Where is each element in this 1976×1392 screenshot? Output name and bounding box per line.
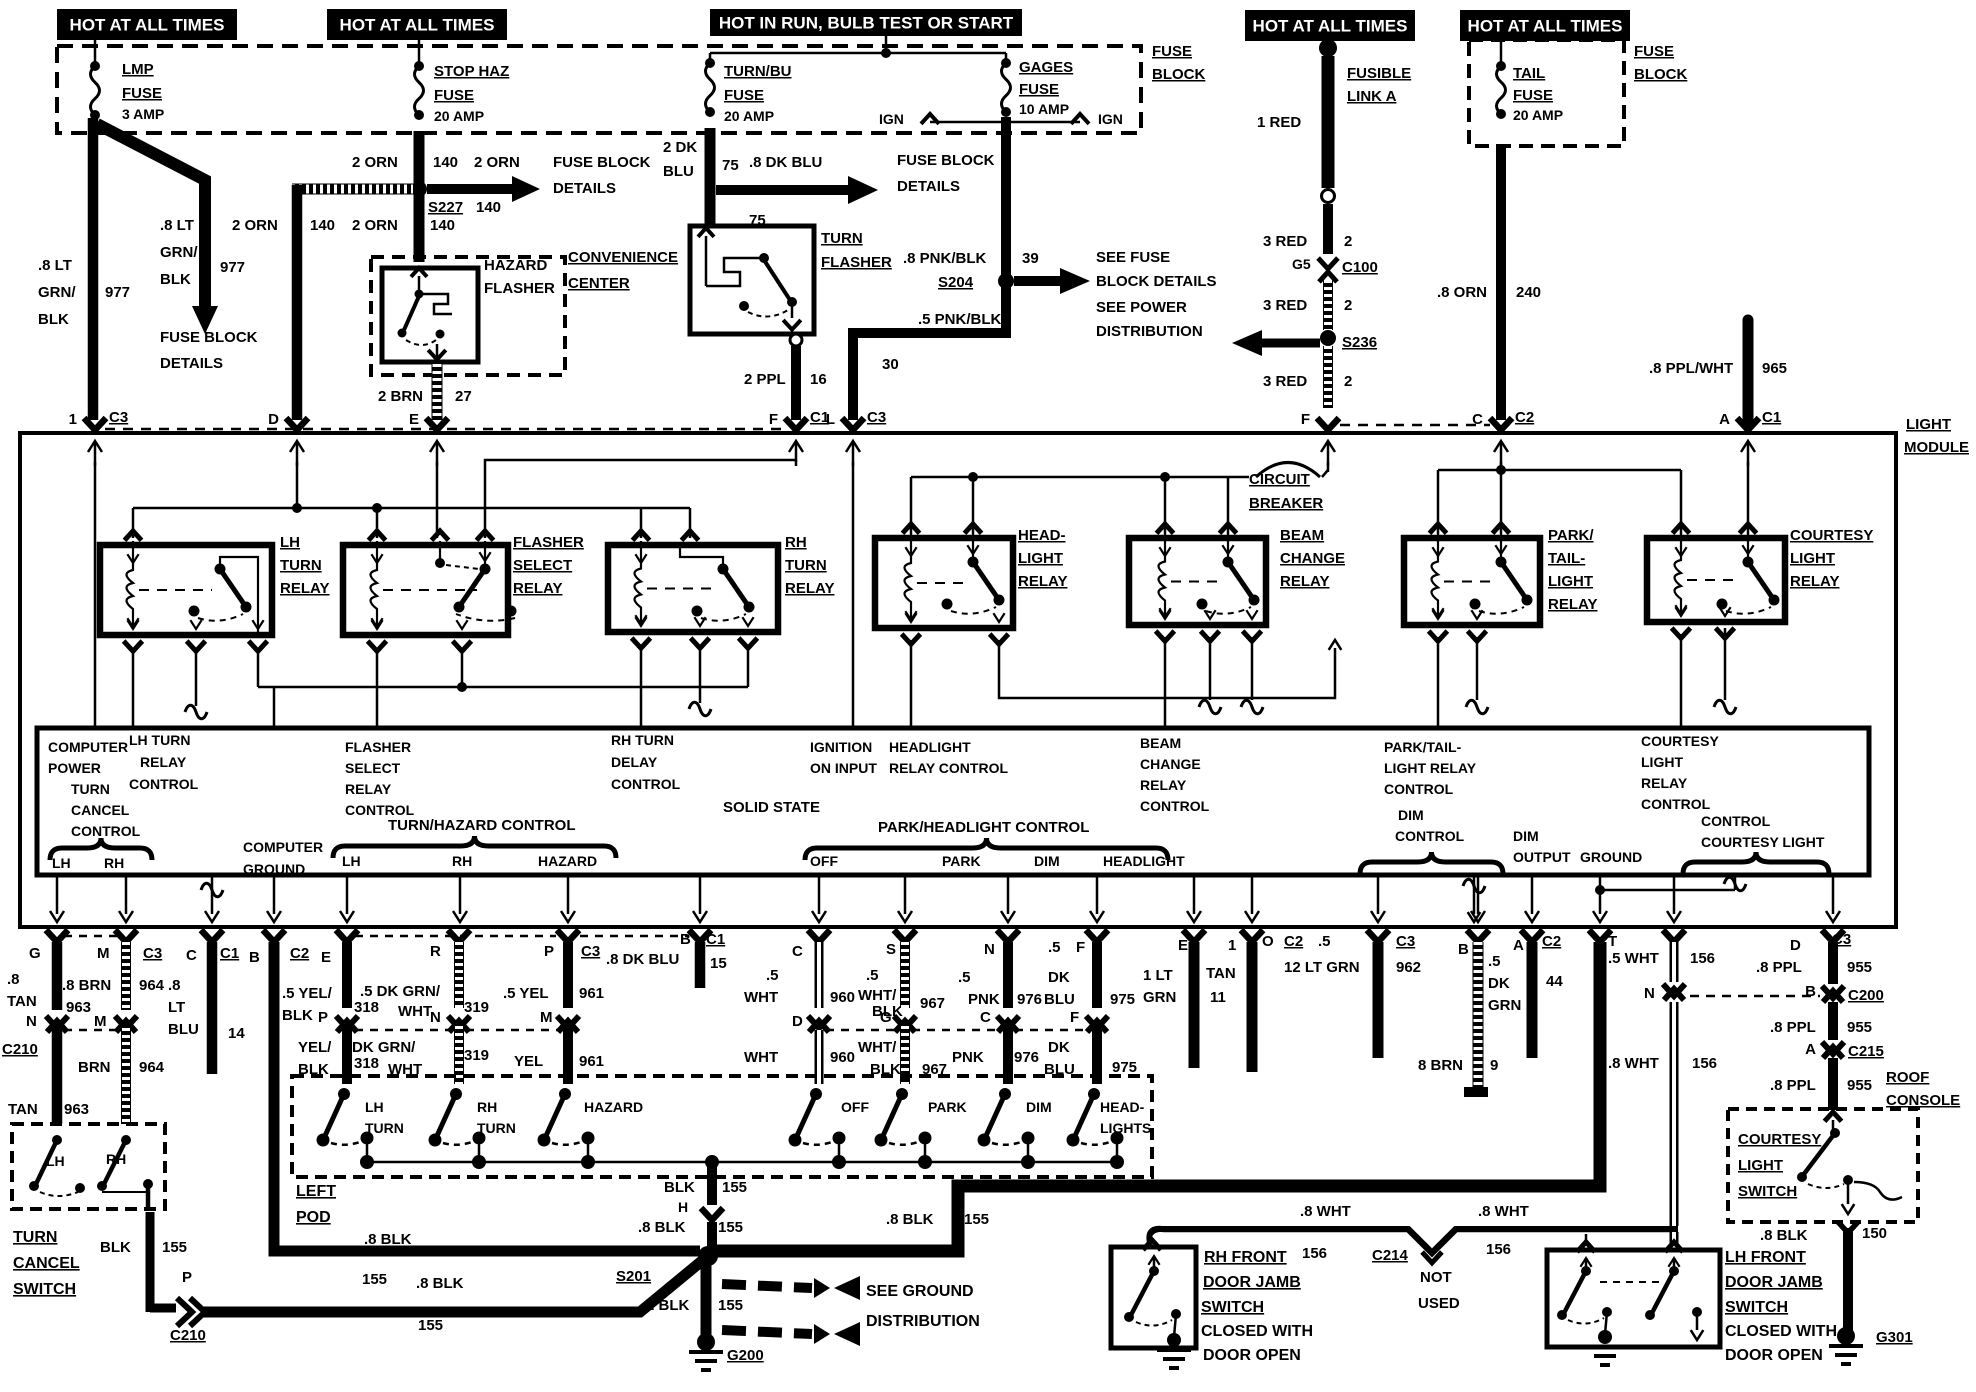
wire .8 WHT 156 (hollow vert) <box>1670 1002 1679 1226</box>
wire 2 BRN 27 (hatched) <box>432 364 443 422</box>
label FLASHER SELECT RELAY CONTROL <box>345 739 415 818</box>
svg-text:962: 962 <box>1396 959 1421 976</box>
svg-text:30: 30 <box>882 356 899 373</box>
svg-text:.5 YEL: .5 YEL <box>503 985 549 1002</box>
svg-text:.5: .5 <box>866 967 879 984</box>
left pod box <box>292 1076 1152 1177</box>
row connector x=568 <box>557 930 579 942</box>
svg-text:E: E <box>409 411 419 428</box>
svg-text:RH: RH <box>785 534 807 551</box>
output wire x=1532 <box>1525 875 1539 922</box>
row connector x=274 <box>263 930 285 942</box>
svg-text:G: G <box>29 945 41 962</box>
label C PNK 976 (row2) <box>952 1009 1039 1066</box>
label COURTESY LIGHT RELAY CONTROL <box>1641 733 1719 812</box>
svg-text:HOT IN RUN, BULB TEST OR START: HOT IN RUN, BULB TEST OR START <box>719 14 1014 33</box>
svg-text:BLK: BLK <box>38 311 69 328</box>
svg-text:DOOR JAMB: DOOR JAMB <box>1203 1274 1301 1291</box>
svg-text:C210: C210 <box>2 1041 38 1058</box>
fuse STOP HAZ 20A <box>414 40 424 120</box>
label 2 DK BLU 75 <box>663 139 739 180</box>
svg-text:967: 967 <box>920 995 945 1012</box>
svg-text:RELAY: RELAY <box>345 781 392 797</box>
LH jamb switch internals right <box>1645 1258 1703 1340</box>
svg-text:LH: LH <box>280 534 300 551</box>
connector N (C200 dashes) <box>1690 995 1820 998</box>
dashed connector line (module top left) <box>105 428 782 431</box>
label LH TURN RELAY CONTROL <box>129 732 199 792</box>
svg-text:.8 PPL: .8 PPL <box>1756 959 1802 976</box>
label P (row2) <box>318 1009 328 1026</box>
wire .8 TAN 963 <box>52 942 63 1124</box>
svg-text:CONTROL: CONTROL <box>1641 796 1711 812</box>
svg-text:LIGHT RELAY: LIGHT RELAY <box>1384 760 1477 776</box>
convenience center (dashed box) <box>371 257 565 375</box>
svg-text:3 RED: 3 RED <box>1263 297 1307 314</box>
svg-text:CONTROL: CONTROL <box>345 802 415 818</box>
svg-text:RELAY: RELAY <box>280 580 329 597</box>
wire .8 BLK to S201 (from B) <box>274 942 700 1251</box>
svg-text:FUSE: FUSE <box>1019 81 1059 98</box>
wire IGN taps <box>921 114 1089 124</box>
svg-text:BRN: BRN <box>78 1059 111 1076</box>
svg-text:319: 319 <box>464 1047 489 1064</box>
connector courtesy out <box>1838 1222 1858 1233</box>
output wire x=460 <box>453 875 467 922</box>
output wire x=1194 <box>1187 875 1201 922</box>
label .8 BLK (S201 diag) <box>416 1275 464 1292</box>
wire PT coil to control <box>1437 637 1440 728</box>
svg-text:S204: S204 <box>938 274 974 291</box>
svg-text:RELAY: RELAY <box>1790 573 1839 590</box>
label CONTROL COURTESY LIGHT <box>1701 813 1825 850</box>
connector E at module top x=437 <box>409 411 448 430</box>
label .8 DK BLU (B C1 15) <box>606 931 727 972</box>
svg-text:318: 318 <box>354 999 379 1016</box>
svg-text:FUSE BLOCK: FUSE BLOCK <box>553 154 651 171</box>
svg-text:C200: C200 <box>1848 987 1884 1004</box>
header HOT AT ALL TIMES (left) <box>57 9 237 40</box>
label .5 DK GRN/WHT 319 <box>360 983 489 1020</box>
svg-text:156: 156 <box>1302 1245 1327 1262</box>
svg-text:HOT AT ALL TIMES: HOT AT ALL TIMES <box>1468 17 1623 36</box>
wire WHT 960 (hollow) <box>815 942 824 1084</box>
svg-text:.5: .5 <box>1048 939 1061 956</box>
svg-text:1 RED: 1 RED <box>1257 114 1301 131</box>
svg-text:TURN/HAZARD CONTROL: TURN/HAZARD CONTROL <box>388 817 575 834</box>
turn cancel switch LH <box>29 1135 85 1196</box>
svg-text:.8: .8 <box>7 971 20 988</box>
svg-text:RELAY: RELAY <box>1140 777 1187 793</box>
svg-text:C1: C1 <box>220 945 239 962</box>
svg-text:2 ORN: 2 ORN <box>232 217 278 234</box>
svg-text:RH: RH <box>452 853 472 869</box>
wire .8 LT GRN/BLK 977 (vertical) <box>88 118 99 420</box>
svg-text:F: F <box>1076 939 1085 956</box>
svg-text:20 AMP: 20 AMP <box>724 108 774 124</box>
svg-text:C3: C3 <box>1396 933 1415 950</box>
dashed connector row line b <box>355 935 556 938</box>
svg-text:S201: S201 <box>616 1268 651 1285</box>
svg-text:.8 BLK: .8 BLK <box>364 1231 412 1248</box>
svg-text:GRN/: GRN/ <box>38 284 76 301</box>
entry arrow x=1501 <box>1494 441 1508 466</box>
svg-text:TURN: TURN <box>821 230 863 247</box>
svg-text:P: P <box>544 943 554 960</box>
svg-text:FUSE BLOCK: FUSE BLOCK <box>897 152 995 169</box>
wire .8 DK BLU 15 (stub) <box>695 942 706 988</box>
connector RH jamb <box>1143 1240 1161 1250</box>
label 2 ORN 140 2 ORN (above) <box>352 154 520 171</box>
svg-text:P: P <box>318 1009 328 1026</box>
label RH TURN DELAY CONTROL <box>611 732 681 792</box>
label 977 (left) <box>105 284 130 301</box>
svg-text:HEAD-: HEAD- <box>1100 1099 1145 1115</box>
svg-text:155: 155 <box>718 1219 743 1236</box>
connector C at module top x=1501 <box>1472 409 1534 430</box>
label PARK/HEADLIGHT CONTROL <box>878 819 1089 836</box>
wire .5 WHT 156 (hollow) <box>1670 942 1679 982</box>
wire C2 44 (stub) <box>1527 942 1538 1058</box>
label LH FRONT DOOR JAMB SWITCH <box>1725 1249 1837 1364</box>
svg-text:F: F <box>1070 1009 1079 1026</box>
label LH RH HAZARD <box>342 853 597 869</box>
svg-text:E: E <box>1178 937 1188 954</box>
svg-text:15: 15 <box>710 955 727 972</box>
svg-text:.5 WHT: .5 WHT <box>1608 950 1659 967</box>
label .5 WHT 156 N <box>1608 950 1715 1002</box>
splice S204 <box>998 273 1014 289</box>
relay PARK/TAIL <box>1404 524 1597 641</box>
svg-text:G200: G200 <box>727 1347 764 1364</box>
svg-text:140: 140 <box>433 154 458 171</box>
svg-text:TURN: TURN <box>365 1120 404 1136</box>
dashed row2 line f <box>1015 1029 1090 1032</box>
svg-text:11: 11 <box>1210 989 1226 1006</box>
svg-text:960: 960 <box>830 989 855 1006</box>
wire 2 ORN arrow to fuse block details <box>427 176 540 202</box>
label 977 (branch) <box>220 259 245 276</box>
connector F at module top x=796 <box>769 409 829 430</box>
wire PT contact break <box>1466 637 1488 714</box>
svg-text:COMPUTER: COMPUTER <box>48 739 128 755</box>
wire 1 TAN (stub) <box>1247 942 1258 1072</box>
coil drops (left bus) <box>133 508 690 538</box>
label DIM OUTPUT GROUND <box>1513 828 1642 865</box>
svg-text:.5: .5 <box>1488 953 1501 970</box>
label .8 ORN 240 <box>1437 284 1541 301</box>
label SEE FUSE BLOCK DETAILS <box>1096 249 1217 290</box>
wire arrow to fuse block details (S204) <box>1014 268 1090 294</box>
label SEE GROUND DISTRIBUTION <box>866 1283 980 1330</box>
svg-text:PARK/: PARK/ <box>1548 527 1594 544</box>
wire .8 ORN 240 <box>1496 144 1506 420</box>
svg-text:RELAY: RELAY <box>1018 573 1067 590</box>
label FUSE BLOCK (left) <box>1152 43 1205 83</box>
svg-text:DISTRIBUTION: DISTRIBUTION <box>1096 323 1203 340</box>
relay feed bus (park) <box>1438 465 1681 475</box>
brace DIM CONTROL <box>1360 852 1503 874</box>
hazard flasher internals <box>398 268 453 362</box>
svg-text:976: 976 <box>1014 1049 1039 1066</box>
svg-text:BLK: BLK <box>100 1239 131 1256</box>
svg-text:C3: C3 <box>581 943 600 960</box>
svg-text:OFF: OFF <box>810 853 838 869</box>
wire .8 PPL 955 chain <box>1828 942 1838 1110</box>
label ROOF CONSOLE <box>1886 1069 1960 1109</box>
connector C214 not used <box>1372 1247 1460 1312</box>
wire hot feed bus (run/bulb-test) <box>710 36 1006 63</box>
label C (819) <box>792 943 803 960</box>
label 155 (under C210 wire) <box>418 1317 443 1334</box>
label 2 BRN 27 <box>378 388 472 405</box>
label .5 PNK/BLK 30 <box>882 311 1002 373</box>
svg-text:140: 140 <box>476 199 501 216</box>
dashed connector line (module top right) <box>1340 424 1490 427</box>
wire BC coil to control <box>1164 637 1167 728</box>
row connector x=57 <box>46 930 68 942</box>
svg-text:OUTPUT: OUTPUT <box>1513 849 1571 865</box>
coil drops (park bus) <box>1438 470 1681 534</box>
splice S227 <box>411 181 427 197</box>
wire 2 ORN 140 (S227 drop) <box>414 131 425 262</box>
svg-text:YEL/: YEL/ <box>298 1039 332 1056</box>
label CIRCUIT BREAKER <box>1249 471 1323 512</box>
svg-text:LH: LH <box>46 1153 65 1169</box>
dashed link jamb <box>1600 1281 1664 1283</box>
svg-text:TURN/BU: TURN/BU <box>724 63 792 80</box>
row connector x=905 <box>894 930 916 942</box>
svg-text:A: A <box>1719 411 1730 428</box>
label TURN/BU FUSE 20 AMP <box>724 63 792 124</box>
row connector x=1097 <box>1086 930 1108 942</box>
svg-text:155: 155 <box>362 1271 387 1288</box>
svg-text:C3: C3 <box>143 945 162 962</box>
label .8 PPL/WHT 965 <box>1649 360 1787 377</box>
entry arrow x=1328 <box>1321 441 1335 466</box>
relay LH TURN <box>100 531 329 651</box>
label .8 BLK 150 <box>1760 1225 1887 1244</box>
row2 connector P x=347 <box>336 1016 358 1032</box>
wire .8 PPL/WHT 965 <box>1743 320 1754 420</box>
svg-text:155: 155 <box>162 1239 187 1256</box>
output wire x=1600 <box>1593 875 1607 922</box>
label .8 WHT (left) <box>1300 1203 1351 1220</box>
label 2 PPL 16 <box>744 371 827 388</box>
label IGN (left) <box>879 111 904 127</box>
brace COURTESY <box>1683 852 1829 874</box>
output wire x=1478 <box>1471 875 1485 922</box>
wire WHT/BLK 967 (hatched) <box>900 942 910 1084</box>
label N (row2) <box>430 1009 441 1026</box>
label S204 <box>938 274 974 291</box>
svg-text:.5 YEL/: .5 YEL/ <box>282 985 333 1002</box>
svg-text:TAN: TAN <box>7 993 37 1010</box>
svg-text:DIM: DIM <box>1513 828 1539 844</box>
svg-text:2 PPL: 2 PPL <box>744 371 786 388</box>
svg-text:2: 2 <box>1344 297 1352 314</box>
output break DIM control <box>1463 875 1485 922</box>
connector H <box>701 1208 723 1220</box>
svg-text:HAZARD: HAZARD <box>538 853 597 869</box>
label COMPUTER POWER TURN CANCEL CONTROL <box>48 739 141 839</box>
svg-text:TAN: TAN <box>1206 965 1236 982</box>
fuse block (tail dashed box) <box>1469 40 1624 146</box>
wire .5 YEL/BLK 318 <box>342 942 352 1084</box>
svg-text:FUSE BLOCK: FUSE BLOCK <box>160 329 258 346</box>
svg-text:.8 ORN: .8 ORN <box>1437 284 1487 301</box>
svg-text:B: B <box>1805 983 1816 1000</box>
svg-text:RELAY: RELAY <box>513 580 562 597</box>
wire RH contact drop <box>747 645 750 687</box>
svg-text:155: 155 <box>718 1297 743 1314</box>
svg-text:PNK: PNK <box>968 991 1000 1008</box>
label N C210 <box>2 1013 38 1058</box>
label T <box>1608 933 1617 950</box>
label 8 BRN 9 <box>1418 1057 1498 1074</box>
wire A to courtesy common <box>1747 462 1750 534</box>
row connector x=1600 <box>1589 930 1611 942</box>
fusible link A <box>1319 38 1337 203</box>
label BRN 964 <box>78 1059 165 1076</box>
svg-text:PARK/HEADLIGHT CONTROL: PARK/HEADLIGHT CONTROL <box>878 819 1089 836</box>
label PARK/TAIL-LIGHT RELAY CONTROL <box>1384 739 1477 797</box>
entry arrow x=853 <box>846 441 860 466</box>
svg-text:.8 BRN: .8 BRN <box>62 977 111 994</box>
wire 2 DK BLU 75 <box>705 128 716 224</box>
svg-text:.8 PNK/BLK: .8 PNK/BLK <box>903 250 987 267</box>
row connector x=1252 <box>1241 930 1263 942</box>
label DIM CONTROL <box>1395 807 1465 844</box>
label GAGES FUSE 10 AMP <box>1019 59 1073 117</box>
svg-text:FUSIBLE: FUSIBLE <box>1347 65 1411 82</box>
pod switch HAZARD <box>538 1088 644 1169</box>
svg-text:SEE POWER: SEE POWER <box>1096 299 1187 316</box>
wire to G200 <box>701 1260 712 1338</box>
svg-text:BREAKER: BREAKER <box>1249 495 1323 512</box>
wire .8 PNK/BLK 39 <box>1001 117 1011 330</box>
svg-text:ROOF: ROOF <box>1886 1069 1929 1086</box>
svg-text:DK: DK <box>1048 969 1070 986</box>
svg-text:WHT: WHT <box>744 989 778 1006</box>
wire LH contact (break) <box>185 648 207 719</box>
circuit breaker <box>1256 463 1328 478</box>
svg-text:TURN: TURN <box>71 781 110 797</box>
label S201 <box>616 1268 651 1285</box>
label STOP HAZ FUSE 20 AMP <box>434 63 509 124</box>
row connector x=819 <box>808 930 830 942</box>
svg-text:C215: C215 <box>1848 1043 1884 1060</box>
svg-text:C3: C3 <box>867 409 886 426</box>
svg-text:156: 156 <box>1690 950 1715 967</box>
svg-text:NOT: NOT <box>1420 1269 1452 1286</box>
svg-text:975: 975 <box>1112 1059 1137 1076</box>
label TURN CANCEL SWITCH <box>13 1229 80 1298</box>
output wire x=1674 <box>1667 875 1681 922</box>
wire CL coil to control <box>1680 634 1683 728</box>
svg-text:TURN: TURN <box>477 1120 516 1136</box>
wire RH coil to control <box>640 645 643 728</box>
row2 connector C x=1008 <box>997 1016 1019 1032</box>
label .8 WHT 156 (vert) <box>1608 1055 1717 1072</box>
label .8 PPL 955 (mid) <box>1770 1019 1872 1036</box>
output wire x=347 <box>340 875 354 922</box>
label G5 C100 <box>1292 256 1378 276</box>
label RH FRONT DOOR JAMB SWITCH <box>1201 1249 1313 1364</box>
row connector x=347 <box>336 930 358 942</box>
brace PARK/HEADLIGHT <box>805 838 1168 860</box>
svg-text:LH: LH <box>52 855 71 871</box>
svg-text:HAZARD: HAZARD <box>584 1099 643 1115</box>
svg-text:BLK: BLK <box>282 1007 313 1024</box>
svg-text:2 ORN: 2 ORN <box>352 154 398 171</box>
row2 connector D x=819 <box>808 1016 830 1032</box>
svg-text:LIGHTS: LIGHTS <box>1100 1120 1151 1136</box>
svg-text:LIGHT: LIGHT <box>1018 550 1063 567</box>
svg-text:G: G <box>880 1009 892 1026</box>
svg-text:C214: C214 <box>1372 1247 1409 1264</box>
output wire x=905 <box>898 875 912 922</box>
svg-text:CLOSED WITH: CLOSED WITH <box>1201 1323 1313 1340</box>
svg-text:BLOCK: BLOCK <box>1634 66 1687 83</box>
svg-text:960: 960 <box>830 1049 855 1066</box>
svg-text:CONTROL: CONTROL <box>1701 813 1771 829</box>
label D WHT 960 (row2) <box>744 1013 855 1066</box>
label .8 TAN 963 <box>7 971 111 1016</box>
svg-text:HEADLIGHT: HEADLIGHT <box>1103 853 1185 869</box>
entry arrow x=796 <box>789 441 803 466</box>
svg-text:16: 16 <box>810 371 827 388</box>
row connector x=1833 <box>1822 930 1844 942</box>
svg-text:FUSE: FUSE <box>1152 43 1192 60</box>
label 3 RED 2 (middle) <box>1263 297 1352 314</box>
connector A at module top x=1748 <box>1719 409 1781 430</box>
svg-text:F: F <box>1301 411 1310 428</box>
svg-text:12 LT GRN: 12 LT GRN <box>1284 959 1360 976</box>
svg-text:.8 BLK: .8 BLK <box>1760 1227 1808 1244</box>
label .5 F DK BLU 975 <box>1044 939 1135 1008</box>
svg-text:B: B <box>680 931 691 948</box>
svg-text:LEFT: LEFT <box>296 1183 336 1200</box>
wire 2 ORN 140 (D drop) <box>292 185 303 420</box>
svg-text:.8 LT: .8 LT <box>160 217 194 234</box>
svg-text:SEE GROUND: SEE GROUND <box>866 1283 974 1300</box>
svg-text:CIRCUIT: CIRCUIT <box>1249 471 1310 488</box>
svg-text:HOT AT ALL TIMES: HOT AT ALL TIMES <box>70 16 225 35</box>
svg-text:C2: C2 <box>1515 409 1534 426</box>
label E 1 LT GRN 11 <box>1143 937 1226 1006</box>
output break courtesy <box>1724 875 1746 891</box>
wire .5 YEL 961 <box>563 942 573 1084</box>
label HEADLIGHT RELAY CONTROL <box>889 739 1008 776</box>
label IGNITION ON INPUT <box>810 739 877 776</box>
svg-text:CONTROL: CONTROL <box>1140 798 1210 814</box>
svg-text:.5: .5 <box>1318 933 1331 950</box>
svg-text:BLOCK DETAILS: BLOCK DETAILS <box>1096 273 1217 290</box>
wire L ignition input <box>852 462 855 728</box>
svg-text:3 AMP: 3 AMP <box>122 106 164 122</box>
svg-text:TAN: TAN <box>8 1101 38 1118</box>
row2 connector G x=905 <box>894 1016 916 1032</box>
svg-text:964: 964 <box>139 1059 165 1076</box>
svg-text:20 AMP: 20 AMP <box>1513 107 1563 123</box>
row2 connector N x=57 <box>46 1016 68 1032</box>
svg-text:DELAY: DELAY <box>611 754 658 770</box>
svg-text:TAIL-: TAIL- <box>1548 550 1585 567</box>
relay feed bus (left) <box>133 503 690 513</box>
label LIGHT MODULE <box>1904 416 1969 456</box>
svg-text:RH: RH <box>477 1099 497 1115</box>
